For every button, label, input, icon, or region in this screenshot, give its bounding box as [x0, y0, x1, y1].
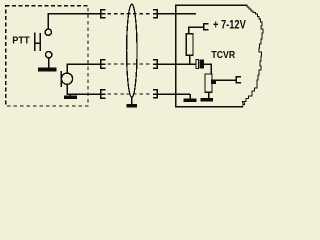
wire: wiper to mic input socket	[216, 79, 236, 81]
wire: C1 to volume pot top	[204, 64, 211, 74]
cable conductor row 1 (dashed)	[108, 13, 153, 15]
resistor R1	[186, 34, 193, 55]
plug P3 row 3 (E connector)	[101, 89, 106, 99]
wire: R1 bottom to audio node	[189, 55, 191, 64]
cable shield ellipse	[127, 4, 137, 97]
potentiometer R2 wiper	[211, 80, 216, 85]
wire: +V feed corner	[189, 27, 203, 34]
wire: row 1 PTT line into TCVR	[157, 13, 196, 15]
jack J2 row 2 (mirrored E connector)	[153, 59, 158, 69]
ground (TCVR shield)	[184, 98, 197, 102]
wire: mic top up and right to plug row 2	[67, 64, 101, 73]
wire: switch bottom contact down to ground	[48, 58, 50, 68]
plug P2 row 2 (E connector)	[101, 59, 106, 69]
connector (+V socket)	[204, 23, 209, 30]
cable conductor row 2 (dashed)	[108, 63, 153, 65]
ground (potentiometer)	[200, 98, 213, 101]
wire: stub to mic ground	[69, 94, 71, 95]
TCVR torn edge	[243, 5, 264, 107]
svg-text:+ 7-12V: + 7-12V	[213, 18, 246, 31]
electret microphone MIC	[61, 73, 72, 84]
jack J3 row 3 (mirrored E connector)	[153, 89, 158, 98]
capacitor C1 plus plate	[196, 60, 199, 69]
wire: pot bottom to ground	[208, 92, 210, 98]
ground (cable shield)	[126, 104, 137, 107]
ground (microphone)	[64, 95, 77, 99]
plug P1 row 1 (E connector)	[101, 9, 106, 19]
ground (PTT switch)	[38, 68, 57, 72]
connector (mic input socket)	[236, 76, 241, 84]
wire: mic bottom down to ground rail row 3	[67, 84, 101, 94]
wire: row 3 ground line into TCVR	[157, 94, 190, 98]
wire: shield to ground	[131, 97, 133, 104]
capacitor C1 minus plate	[200, 60, 204, 69]
pushbutton switch S1 bottom contact	[46, 52, 52, 58]
svg-text:TCVR: TCVR	[211, 50, 235, 61]
pushbutton switch S1 top contact	[45, 29, 51, 35]
potentiometer R2 body	[205, 74, 212, 92]
microphone handset dashed enclosure box	[6, 6, 88, 106]
jack J1 row 1 (mirrored E connector)	[153, 9, 158, 19]
pushbutton switch S1 actuator	[35, 32, 41, 51]
TCVR box solid border	[176, 5, 246, 107]
wire: row 2 audio line into TCVR	[157, 63, 196, 65]
svg-text:PTT: PTT	[12, 36, 30, 47]
wire: switch top contact up and right to plug row 1	[48, 14, 100, 29]
cable conductor row 3 (dashed)	[108, 93, 153, 95]
microphone element bar	[60, 71, 62, 87]
